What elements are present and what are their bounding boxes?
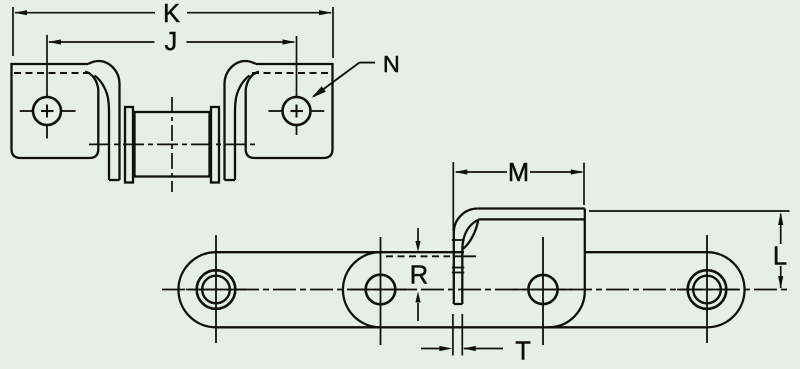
bend outer arc (side view) bbox=[454, 209, 478, 233]
right bend outer curve bbox=[225, 61, 257, 180]
bushing circle pin 1 bbox=[202, 276, 230, 304]
hidden edge (dashed) behind attachment bbox=[386, 255, 450, 257]
right bushing plate (edge view) bbox=[211, 107, 219, 183]
svg-text:L: L bbox=[773, 243, 787, 271]
pin 2 hole circle bbox=[366, 275, 396, 305]
pin 3 hole circle bbox=[528, 275, 557, 304]
bushing circle pin 4 bbox=[693, 276, 721, 304]
roller bbox=[135, 112, 210, 177]
svg-text:M: M bbox=[508, 159, 529, 187]
attachment plate left end arc (pin 2) bbox=[343, 252, 381, 327]
right plate hole bbox=[268, 94, 324, 136]
chain centerline (side view) bbox=[162, 289, 790, 291]
roller circle pin 1 bbox=[197, 270, 236, 309]
left plate end arc (pin 1) bbox=[178, 252, 216, 327]
dimension K bbox=[13, 7, 333, 58]
pin 2 crosshair bbox=[350, 237, 411, 345]
left bushing plate (edge view) bbox=[125, 107, 133, 183]
leader N arrow bbox=[312, 63, 375, 98]
link plate top edge bbox=[216, 251, 464, 253]
right leg bottom edge bbox=[225, 179, 236, 181]
dimension L bbox=[589, 211, 790, 289]
pin 4 crosshair bbox=[677, 235, 738, 343]
horizontal centerline (front view) bbox=[89, 143, 255, 145]
right plate end arc (pin 4) bbox=[707, 252, 745, 327]
attachment corner arc bbox=[549, 291, 585, 327]
svg-text:N: N bbox=[383, 51, 400, 77]
left bend inner curve bbox=[95, 76, 110, 181]
bent strip right line bbox=[461, 250, 463, 305]
bend leaf (plate end face) bbox=[462, 220, 478, 250]
dimension M bbox=[453, 162, 584, 231]
left leg bottom edge bbox=[109, 179, 120, 181]
bent strip bottom bbox=[454, 303, 463, 305]
svg-text:J: J bbox=[165, 28, 178, 56]
pin 1 crosshair bbox=[186, 235, 247, 343]
right attachment plate bbox=[246, 64, 333, 158]
right bend inner curve bbox=[235, 76, 250, 181]
platform top edge bbox=[478, 207, 585, 209]
left plate hole bbox=[20, 94, 76, 139]
left bend outer curve bbox=[88, 61, 120, 180]
svg-text:T: T bbox=[515, 338, 531, 366]
right plate bend line (dashed) bbox=[252, 72, 330, 74]
short edge across bent strip bbox=[453, 255, 476, 257]
vertical centerline (front view) bbox=[171, 97, 173, 192]
dimension R bbox=[415, 228, 420, 321]
svg-text:R: R bbox=[410, 261, 428, 289]
bent strip left line bbox=[453, 233, 455, 305]
dimension J bbox=[47, 35, 297, 94]
roller circle pin 4 bbox=[688, 270, 727, 309]
attachment right edge bbox=[584, 209, 586, 292]
svg-text:K: K bbox=[163, 0, 180, 28]
left plate bend line (dashed) bbox=[14, 72, 92, 74]
dimension T bbox=[421, 314, 503, 356]
pin 3 crosshair bbox=[513, 237, 573, 345]
left attachment plate bbox=[12, 64, 99, 158]
platform under edge bbox=[478, 218, 585, 220]
strip hatch ticks bbox=[452, 240, 465, 273]
link plate bottom edge bbox=[216, 326, 707, 328]
right plate top edge bbox=[585, 251, 707, 253]
